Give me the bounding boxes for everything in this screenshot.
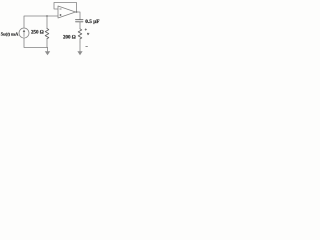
svg-text:0.5 μF: 0.5 μF [85, 19, 99, 25]
svg-text:5u(t) mA: 5u(t) mA [1, 32, 19, 37]
svg-text:250 Ω: 250 Ω [31, 30, 44, 35]
svg-text:200 Ω: 200 Ω [63, 35, 76, 40]
svg-text:v: v [87, 31, 89, 36]
